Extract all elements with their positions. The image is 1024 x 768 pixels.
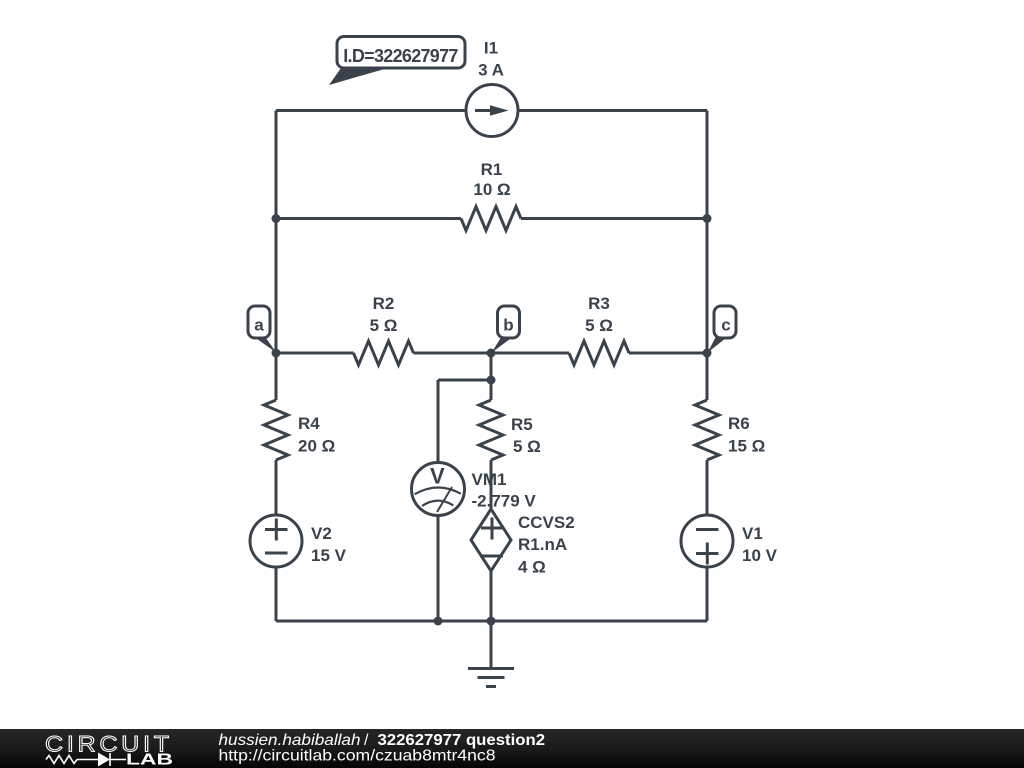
wire left branch upper vertical — [275, 111, 278, 219]
wire middle row R3 to c — [629, 352, 707, 355]
voltage source V2 minus sign — [265, 552, 288, 555]
wire CCVS2 to bottom — [490, 571, 493, 621]
svg-text:10 Ω: 10 Ω — [473, 180, 510, 199]
voltage source V2 circle — [250, 515, 302, 567]
svg-text:I1: I1 — [484, 39, 498, 58]
svg-text:R3: R3 — [588, 294, 610, 313]
current source I1 arrow — [475, 109, 492, 112]
wire top-right horizontal — [518, 109, 707, 112]
node label a bubble box — [248, 306, 270, 338]
svg-text:b: b — [503, 316, 513, 335]
wire right branch below node c — [706, 353, 709, 400]
svg-text:/: / — [364, 732, 369, 749]
svg-text:3 A: 3 A — [478, 61, 504, 80]
node c dot — [703, 349, 712, 358]
svg-text:R6: R6 — [728, 414, 750, 433]
voltage source V1 circle — [681, 515, 733, 567]
wire left branch below node a — [275, 353, 278, 400]
logo resistor zigzag and diode glyph — [46, 753, 126, 766]
annotation bubble box — [337, 37, 465, 69]
resistor R2 zigzag — [354, 341, 414, 365]
resistor R1 zigzag — [461, 207, 521, 231]
node a dot — [272, 349, 281, 358]
wire R5 to CCVS2 — [490, 460, 493, 509]
svg-text:http://circuitlab.com/czuab8mt: http://circuitlab.com/czuab8mtr4nc8 — [219, 748, 496, 765]
resistor R5 zigzag — [479, 400, 503, 460]
voltage source V1 plus sign — [696, 543, 719, 565]
svg-text:V1: V1 — [742, 524, 763, 543]
current source I1 arrowhead — [490, 105, 509, 116]
svg-text:LAB: LAB — [126, 752, 173, 768]
wire voltmeter branch horizontal — [438, 379, 491, 382]
junction dot voltmeter bottom — [434, 617, 443, 626]
junction dot left R1 row — [272, 214, 281, 223]
svg-text:R1.nA: R1.nA — [518, 535, 567, 554]
voltmeter VM1 circle — [412, 463, 465, 516]
svg-text:15 V: 15 V — [311, 546, 347, 565]
node label a tail — [255, 338, 277, 353]
node label b tail — [492, 338, 513, 353]
svg-text:R2: R2 — [373, 294, 395, 313]
svg-text:R5: R5 — [511, 415, 533, 434]
CCVS2 minus sign — [480, 555, 503, 558]
CCVS2 plus sign — [481, 518, 503, 540]
svg-text:20 Ω: 20 Ω — [298, 437, 335, 456]
svg-text:5 Ω: 5 Ω — [585, 316, 613, 335]
wire voltmeter to bottom — [437, 516, 440, 622]
wire ground stem — [490, 621, 493, 668]
resistor R3 zigzag — [569, 341, 629, 365]
svg-text:CCVS2: CCVS2 — [518, 513, 575, 532]
node b dot — [487, 349, 496, 358]
voltmeter VM1 needle — [437, 487, 452, 512]
dependent source CCVS2 diamond — [471, 509, 511, 571]
svg-text:V2: V2 — [311, 524, 332, 543]
svg-text:5 Ω: 5 Ω — [513, 437, 541, 456]
wire voltmeter branch upper vertical — [437, 380, 440, 463]
voltmeter VM1 upper arc — [415, 487, 461, 494]
footer bar background — [0, 729, 1024, 768]
svg-text:c: c — [721, 316, 730, 335]
svg-text:VM1: VM1 — [472, 470, 507, 489]
wire node b drop — [490, 353, 493, 380]
wire R6 to V1 — [706, 460, 709, 515]
junction dot right R1 row — [703, 214, 712, 223]
svg-text:R4: R4 — [298, 414, 320, 433]
wire left branch mid vertical — [275, 219, 278, 354]
annotation bubble tail — [329, 68, 388, 85]
resistor R6 zigzag — [695, 400, 719, 460]
voltage source V2 plus sign — [265, 519, 288, 541]
wire R1 row left — [276, 217, 461, 220]
svg-text:322627977 question2: 322627977 question2 — [378, 732, 546, 749]
wire junction to R5 — [490, 380, 493, 400]
wire bottom horizontal — [276, 620, 707, 623]
svg-text:15 Ω: 15 Ω — [728, 437, 765, 456]
svg-text:a: a — [254, 316, 264, 335]
wire R4 to V2 — [275, 460, 278, 515]
svg-text:10 V: 10 V — [742, 546, 778, 565]
wire R1 row right — [521, 217, 707, 220]
svg-text:4 Ω: 4 Ω — [518, 558, 546, 577]
wire V1 to bottom — [706, 567, 709, 621]
wire middle row R2 to b — [414, 352, 570, 355]
voltmeter VM1 lower arc — [422, 501, 453, 506]
svg-text:R1: R1 — [481, 160, 503, 179]
voltage source V1 minus sign — [696, 528, 719, 531]
svg-text:I.D=322627977: I.D=322627977 — [343, 46, 458, 66]
logo diode triangle — [98, 753, 110, 767]
junction dot below node b — [487, 376, 496, 385]
wire top-left horizontal — [276, 109, 466, 112]
node label c bubble box — [714, 306, 736, 338]
svg-text:V: V — [430, 464, 445, 489]
svg-text:hussien.habiballah: hussien.habiballah — [219, 732, 361, 749]
node label b bubble box — [498, 306, 520, 338]
wire right branch upper vertical — [706, 111, 709, 219]
resistor R4 zigzag — [264, 400, 288, 460]
svg-text:-2.779 V: -2.779 V — [472, 492, 537, 511]
wire V2 to bottom — [275, 567, 278, 621]
junction dot ground — [487, 617, 496, 626]
wire right branch mid vertical — [706, 219, 709, 354]
node label c tail — [708, 338, 727, 353]
wire middle row a to R2 — [276, 352, 354, 355]
svg-text:5 Ω: 5 Ω — [370, 316, 398, 335]
current source I1 circle — [466, 85, 518, 137]
ground symbol bars — [468, 669, 514, 687]
